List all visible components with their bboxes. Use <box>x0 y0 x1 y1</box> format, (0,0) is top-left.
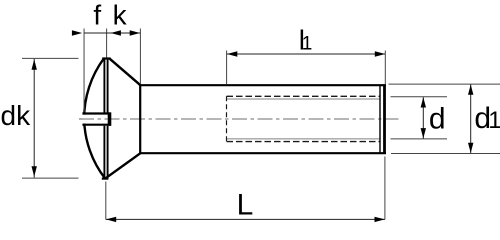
arrow f left (outside, pointing right) <box>72 30 82 35</box>
extension line d top <box>391 96 448 98</box>
thread hidden outline left end (dashed vertical) <box>226 96 228 141</box>
svg-text:f: f <box>93 0 101 31</box>
head cone bottom edge <box>106 153 141 178</box>
arrow d1 bottom (pointing down) <box>468 143 473 153</box>
extension line L left <box>105 182 107 220</box>
extension line d1 bottom <box>391 153 500 155</box>
arrow d1 top (pointing up) <box>468 85 473 95</box>
extension line k right <box>139 29 141 85</box>
arrow L right (pointing right) <box>375 217 385 222</box>
head apex plateau <box>102 57 110 59</box>
arrow dk top (pointing up) <box>32 59 37 69</box>
thread hidden outline top (dashed) <box>227 95 381 97</box>
arrow k right (inside, pointing right) <box>130 30 140 35</box>
arrow f right / k left (pointing left) <box>111 30 121 35</box>
shank top edge <box>139 84 386 86</box>
head/shank junction line <box>139 85 141 153</box>
extension line d1 top <box>389 83 500 85</box>
svg-text:dk: dk <box>1 100 32 131</box>
dimension line d1 <box>470 85 472 154</box>
svg-text:k: k <box>113 0 128 31</box>
svg-text:d: d <box>429 102 446 135</box>
extension line f left <box>83 29 85 113</box>
extension line f right / k left <box>106 29 108 58</box>
extension line l1 right <box>384 51 386 85</box>
extension line l1 left <box>226 51 228 85</box>
arrow L left (pointing left) <box>106 217 116 222</box>
thread hidden outline bottom (dashed) <box>227 141 381 143</box>
shank end face <box>383 84 386 154</box>
thread root line bottom (thin) <box>227 138 380 140</box>
arrow l1 left (pointing left) <box>227 51 237 56</box>
dimension line f-k <box>84 32 140 34</box>
shank bottom edge <box>139 152 386 154</box>
slot top edge <box>82 112 111 114</box>
arrow l1 right (pointing right) <box>375 51 385 56</box>
arrow d bottom (pointing down) <box>421 128 426 138</box>
extension line dk top <box>22 57 79 59</box>
crown transition line right <box>107 59 109 113</box>
arrow d top (pointing up) <box>421 97 426 107</box>
svg-text:1: 1 <box>488 107 500 134</box>
slot bottom cap <box>108 112 112 125</box>
shank end chamfer line <box>379 85 381 153</box>
svg-text:L: L <box>237 189 254 222</box>
extension line d bottom <box>391 138 448 140</box>
head cone top edge <box>110 59 141 85</box>
slot bottom edge <box>82 124 111 126</box>
dimension line l1 <box>227 53 385 55</box>
head crown arc <box>84 59 105 179</box>
dimension line d <box>422 97 424 138</box>
dimension line dk <box>33 59 35 178</box>
svg-text:1: 1 <box>302 34 313 55</box>
arrow dk bottom (pointing down) <box>32 166 37 176</box>
centerline (screw axis) <box>79 118 399 120</box>
slot cavity (white fill) <box>82 115 110 124</box>
extension line dk bottom <box>22 177 79 179</box>
head bottom plateau <box>102 178 109 180</box>
dimension line L <box>106 218 385 220</box>
centerline segment through slot cavity <box>79 118 108 120</box>
extension line L right <box>384 157 386 220</box>
crown transition line left <box>103 59 105 113</box>
thread root line top (thin) <box>227 98 380 100</box>
